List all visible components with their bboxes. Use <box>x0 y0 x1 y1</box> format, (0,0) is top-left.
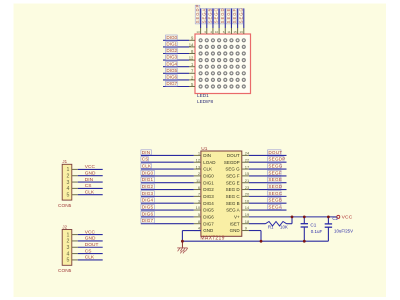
svg-text:LOAD: LOAD <box>203 160 216 165</box>
svg-text:2: 2 <box>67 173 70 179</box>
svg-text:DIG4: DIG4 <box>142 198 154 203</box>
svg-text:J2: J2 <box>62 224 67 229</box>
svg-text:DIG3: DIG3 <box>166 55 177 60</box>
svg-text:DIG6: DIG6 <box>203 214 214 219</box>
svg-text:DIN: DIN <box>203 153 211 158</box>
svg-text:11: 11 <box>227 30 230 34</box>
svg-text:CLK: CLK <box>142 164 152 169</box>
svg-text:3: 3 <box>67 180 70 186</box>
svg-text:SEGF: SEGF <box>232 8 237 23</box>
svg-text:DIG5: DIG5 <box>166 68 177 73</box>
svg-text:SEGC: SEGC <box>214 7 219 23</box>
svg-text:DIG4: DIG4 <box>166 61 177 66</box>
svg-text:1: 1 <box>67 167 70 173</box>
svg-text:SEGF: SEGF <box>268 170 281 175</box>
svg-text:SEG D: SEG D <box>226 187 241 192</box>
svg-text:GND: GND <box>230 228 241 233</box>
svg-text:SEGE: SEGE <box>226 8 231 24</box>
svg-text:DOUT: DOUT <box>268 150 282 155</box>
svg-text:SEGDP: SEGDP <box>195 4 200 24</box>
svg-text:5: 5 <box>67 192 70 198</box>
svg-text:4: 4 <box>67 186 70 192</box>
svg-text:ISET: ISET <box>230 221 240 226</box>
svg-text:SEGD: SEGD <box>268 184 282 189</box>
svg-text:DIG0: DIG0 <box>166 35 177 40</box>
svg-text:SEGDP: SEGDP <box>224 160 240 165</box>
svg-text:DIG7: DIG7 <box>142 218 154 223</box>
svg-text:SEG G: SEG G <box>225 167 240 172</box>
svg-text:CON5: CON5 <box>58 203 72 209</box>
svg-text:SEGA: SEGA <box>268 205 282 210</box>
svg-text:DIG4: DIG4 <box>203 201 214 206</box>
svg-text:CS: CS <box>142 157 149 162</box>
svg-text:DIG2: DIG2 <box>203 187 214 192</box>
svg-text:DIG6: DIG6 <box>142 211 154 216</box>
svg-text:DIG7: DIG7 <box>166 81 177 86</box>
svg-text:DIG3: DIG3 <box>203 194 214 199</box>
svg-text:13: 13 <box>196 30 200 34</box>
svg-text:VCC: VCC <box>342 214 353 220</box>
svg-text:10: 10 <box>215 30 219 34</box>
svg-text:1: 1 <box>67 232 70 238</box>
svg-text:SEGDP: SEGDP <box>268 157 285 162</box>
svg-text:DIG3: DIG3 <box>142 191 154 196</box>
svg-text:SEGD: SEGD <box>220 7 225 23</box>
svg-text:SEG E: SEG E <box>226 180 240 185</box>
svg-text:VCC: VCC <box>85 164 96 170</box>
svg-text:VCC: VCC <box>85 229 96 235</box>
svg-text:DIG5: DIG5 <box>142 205 154 210</box>
svg-text:SEGE: SEGE <box>268 177 282 182</box>
svg-text:DIN: DIN <box>85 177 94 183</box>
svg-text:3: 3 <box>67 245 70 251</box>
svg-text:GND: GND <box>85 171 96 177</box>
svg-text:SEGC: SEGC <box>268 191 282 196</box>
svg-text:4: 4 <box>67 251 70 257</box>
svg-text:CS: CS <box>85 183 92 189</box>
svg-text:GND: GND <box>203 228 214 233</box>
svg-text:DIG0: DIG0 <box>203 173 214 178</box>
svg-text:U1: U1 <box>201 146 207 152</box>
svg-text:CLK: CLK <box>85 255 95 261</box>
svg-text:SEG C: SEG C <box>226 194 241 199</box>
svg-text:DIG1: DIG1 <box>203 180 214 185</box>
svg-text:DOUT: DOUT <box>85 242 99 248</box>
svg-text:SEGA: SEGA <box>201 8 206 24</box>
svg-text:DIG1: DIG1 <box>166 42 177 47</box>
svg-text:SEGB: SEGB <box>207 8 212 24</box>
svg-text:10uF/25V: 10uF/25V <box>334 229 353 234</box>
svg-text:DIG7: DIG7 <box>203 221 214 226</box>
svg-text:14: 14 <box>189 42 194 47</box>
svg-text:DIN: DIN <box>142 150 151 155</box>
svg-text:SEGB: SEGB <box>268 198 282 203</box>
svg-text:CON5: CON5 <box>58 268 72 274</box>
svg-text:2: 2 <box>67 239 70 245</box>
svg-text:SEGG: SEGG <box>268 164 282 169</box>
svg-text:R1: R1 <box>268 224 274 229</box>
svg-text:SEG A: SEG A <box>226 208 240 213</box>
svg-text:LED1: LED1 <box>197 93 209 98</box>
svg-text:13: 13 <box>196 164 201 169</box>
svg-text:SEGG: SEGG <box>238 7 243 23</box>
svg-text:J1: J1 <box>62 159 67 164</box>
svg-text:0.1uF: 0.1uF <box>311 229 323 234</box>
svg-text:DIG5: DIG5 <box>203 208 214 213</box>
svg-text:DIG1: DIG1 <box>142 177 154 182</box>
svg-text:DIG2: DIG2 <box>142 184 154 189</box>
svg-text:GND: GND <box>85 236 96 242</box>
svg-text:CLK: CLK <box>85 190 95 196</box>
svg-text:5: 5 <box>67 258 70 264</box>
svg-text:SEG F: SEG F <box>226 173 240 178</box>
svg-text:DIG6: DIG6 <box>166 75 177 80</box>
svg-text:V+: V+ <box>234 214 240 219</box>
svg-text:10: 10 <box>196 205 201 210</box>
svg-text:CLK: CLK <box>203 167 212 172</box>
svg-text:C2: C2 <box>332 216 338 221</box>
svg-text:CS: CS <box>85 248 92 254</box>
svg-text:12: 12 <box>196 157 201 162</box>
svg-text:DIG2: DIG2 <box>166 48 177 53</box>
svg-text:16: 16 <box>240 30 244 34</box>
svg-text:DIG0: DIG0 <box>142 170 154 175</box>
svg-text:15: 15 <box>233 30 237 34</box>
svg-text:10K: 10K <box>280 224 288 229</box>
svg-text:LED8*8: LED8*8 <box>197 99 214 104</box>
svg-text:DOUT: DOUT <box>227 153 240 158</box>
svg-text:C1: C1 <box>310 223 316 228</box>
svg-text:12: 12 <box>189 56 194 61</box>
svg-text:SEG B: SEG B <box>226 201 240 206</box>
